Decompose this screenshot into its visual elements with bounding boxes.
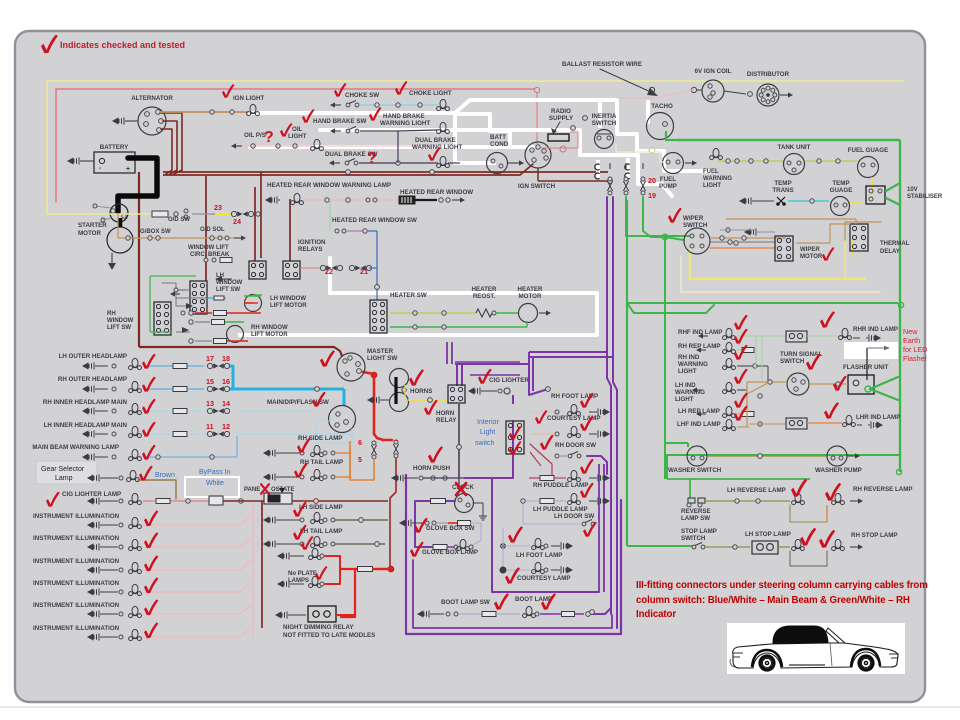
svg-text:WINDOW: WINDOW [107,318,134,324]
svg-text:SWITCH: SWITCH [681,535,706,542]
svg-text:LIGHT: LIGHT [703,183,721,189]
svg-text:INSTRUMENT ILLUMINATION: INSTRUMENT ILLUMINATION [33,558,120,565]
svg-text:LAMPS: LAMPS [288,578,309,584]
svg-text:CIG LIGHTER: CIG LIGHTER [489,377,529,384]
svg-text:RH IND: RH IND [678,354,700,361]
svg-text:16: 16 [222,377,230,386]
svg-text:LHF IND LAMP: LHF IND LAMP [677,421,721,428]
svg-text:LH SIDE LAMP: LH SIDE LAMP [299,504,343,511]
svg-text:INERTIA: INERTIA [592,113,617,120]
svg-text:OSTATE: OSTATE [271,487,294,493]
svg-text:23: 23 [214,203,222,212]
svg-text:+: + [126,166,130,173]
svg-text:HEATER: HEATER [518,286,544,293]
svg-text:RH REP LAMP: RH REP LAMP [678,343,721,350]
svg-text:LAMP SW: LAMP SW [681,515,710,522]
svg-text:LH REVERSE LAMP: LH REVERSE LAMP [727,487,786,494]
svg-text:BATT: BATT [490,134,506,141]
svg-text:LH INNER HEADLAMP MAIN: LH INNER HEADLAMP MAIN [44,422,128,429]
svg-text:RELAYS: RELAYS [298,246,323,253]
svg-text:STABILISER: STABILISER [907,194,943,200]
svg-text:MOTOR: MOTOR [519,293,542,300]
svg-text:SWITCH: SWITCH [780,358,805,365]
svg-text:HEATED REAR WINDOW SW: HEATED REAR WINDOW SW [332,217,417,224]
svg-text:Indicator: Indicator [636,609,676,620]
svg-text:STARTER: STARTER [78,222,107,229]
svg-text:?: ? [367,150,377,167]
svg-text:LHR IND LAMP: LHR IND LAMP [856,414,900,421]
svg-text:Earth: Earth [903,336,920,345]
svg-text:HEATED REAR WINDOW WARNING LAM: HEATED REAR WINDOW WARNING LAMP [267,182,391,189]
svg-text:FUEL GUAGE: FUEL GUAGE [848,147,888,154]
svg-text:12: 12 [222,422,230,431]
svg-text:White: White [206,480,224,487]
svg-text:LH DOOR SW: LH DOOR SW [554,513,594,520]
svg-text:LH OUTER HEADLAMP: LH OUTER HEADLAMP [59,353,127,360]
svg-text:11: 11 [206,422,214,431]
svg-text:FUEL: FUEL [703,169,719,175]
svg-text:STOP LAMP: STOP LAMP [681,528,717,535]
svg-text:HORN: HORN [436,410,455,417]
svg-text:REOST.: REOST. [473,293,496,300]
svg-text:HEATER SW: HEATER SW [390,292,427,299]
svg-text:10V: 10V [907,187,918,193]
svg-text:RH REVERSE LAMP: RH REVERSE LAMP [853,486,912,493]
svg-text:Light: Light [480,429,495,436]
svg-text:TURN SIGNAL: TURN SIGNAL [780,351,822,358]
svg-text:SWITCH: SWITCH [592,120,617,127]
svg-text:LH FOOT LAMP: LH FOOT LAMP [516,552,562,559]
svg-text:INSTRUMENT ILLUMINATION: INSTRUMENT ILLUMINATION [33,513,120,520]
svg-text:LIGHT: LIGHT [288,133,307,140]
svg-text:PUMP: PUMP [659,183,677,190]
svg-text:LIGHT: LIGHT [678,368,697,375]
svg-text:column switch: Blue/White – Ma: column switch: Blue/White – Main Beam & … [636,595,910,606]
svg-text:19: 19 [648,191,656,200]
svg-text:21: 21 [360,267,368,276]
svg-text:CIRC. BREAK: CIRC. BREAK [190,252,230,258]
svg-text:HORNS: HORNS [410,388,432,395]
svg-text:24: 24 [233,217,241,226]
svg-text:LH WINDOW: LH WINDOW [270,296,306,302]
svg-text:RH OUTER HEADLAMP: RH OUTER HEADLAMP [58,376,127,383]
svg-text:ByPass In: ByPass In [199,469,231,476]
svg-text:TEMP: TEMP [832,180,849,187]
svg-text:FUEL: FUEL [660,176,676,183]
svg-text:WASHER PUMP: WASHER PUMP [815,467,862,474]
svg-text:LIFT MOTOR: LIFT MOTOR [251,332,288,338]
svg-text:CHOKE SW: CHOKE SW [345,92,379,99]
svg-text:LIFT SW: LIFT SW [107,325,131,331]
svg-text:HORN PUSH: HORN PUSH [413,465,451,472]
svg-text:22: 22 [325,267,333,276]
svg-text:WINDOW: WINDOW [216,280,243,286]
svg-text:SUPPLY: SUPPLY [549,115,574,122]
svg-text:COND: COND [490,141,509,148]
svg-text:LH TAIL LAMP: LH TAIL LAMP [300,528,342,535]
svg-text:FLASHER UNIT: FLASHER UNIT [843,364,889,371]
svg-text:17: 17 [206,354,214,363]
svg-text:WARNING: WARNING [675,389,705,396]
svg-text:LIFT SW: LIFT SW [216,287,240,293]
svg-text:DELAY: DELAY [880,249,900,255]
svg-text:RH PUDDLE LAMP: RH PUDDLE LAMP [533,482,588,489]
svg-text:LH IND: LH IND [675,382,696,389]
svg-text:for LED: for LED [903,345,927,354]
svg-text:IGN SWITCH: IGN SWITCH [518,183,556,190]
svg-text:TANK UNIT: TANK UNIT [778,144,811,151]
svg-text:WASHER SWITCH: WASHER SWITCH [668,467,722,474]
svg-text:PANE: PANE [244,487,260,493]
svg-text:LH REP LAMP: LH REP LAMP [678,408,720,415]
svg-text:13: 13 [206,399,214,408]
svg-text:RHR IND LAMP: RHR IND LAMP [853,326,898,333]
svg-text:BOOT LAMP SW: BOOT LAMP SW [441,599,490,606]
svg-text:Gear Selector: Gear Selector [41,466,85,473]
svg-text:LIFT MOTOR: LIFT MOTOR [270,303,307,309]
svg-text:BOOT LAMP: BOOT LAMP [515,596,552,603]
svg-text:CIG LIGHTER LAMP: CIG LIGHTER LAMP [62,491,121,498]
svg-text:THERMAL: THERMAL [880,241,910,247]
svg-text:INSTRUMENT ILLUMINATION: INSTRUMENT ILLUMINATION [33,625,120,632]
svg-text:GLOVE BOX LAMP: GLOVE BOX LAMP [422,549,478,556]
svg-text:MOTOR: MOTOR [78,230,101,237]
svg-text:RADIO: RADIO [551,108,571,115]
svg-text:RH DOOR SW: RH DOOR SW [555,442,596,449]
svg-text:MAIN BEAM WARNING LAMP: MAIN BEAM WARNING LAMP [32,444,119,451]
svg-text:6: 6 [358,438,362,447]
svg-text:MOTOR: MOTOR [800,254,823,260]
svg-text:TACHO: TACHO [651,103,673,110]
svg-text:RELAY: RELAY [436,417,457,424]
svg-text:RHF IND LAMP: RHF IND LAMP [678,329,722,336]
svg-text:Brown: Brown [155,472,175,479]
svg-text:REVERSE: REVERSE [681,508,711,515]
svg-text:OIL: OIL [292,126,303,133]
svg-text:Interior: Interior [477,419,499,426]
svg-text:O/D SOL: O/D SOL [200,227,225,233]
svg-text:5: 5 [358,455,362,464]
svg-text:BATTERY: BATTERY [100,144,129,151]
svg-text:18: 18 [222,354,230,363]
svg-text:NOT FITTED TO LATE MODLES: NOT FITTED TO LATE MODLES [283,632,375,639]
svg-text:GLOVE BOX SW: GLOVE BOX SW [426,525,475,532]
svg-text:DISTRIBUTOR: DISTRIBUTOR [747,71,790,78]
svg-text:20: 20 [648,176,656,185]
svg-text:INSTRUMENT ILLUMINATION: INSTRUMENT ILLUMINATION [33,535,120,542]
svg-text:RH: RH [107,311,116,317]
svg-text:IGN LIGHT: IGN LIGHT [233,95,264,102]
svg-text:GUAGE: GUAGE [830,187,853,194]
svg-text:14: 14 [222,399,230,408]
svg-text:IGNITION: IGNITION [298,239,326,246]
svg-text:COURTESY LAMP: COURTESY LAMP [517,575,571,582]
svg-text:RH INNER HEADLAMP MAIN: RH INNER HEADLAMP MAIN [43,399,128,406]
svg-text:WARNING: WARNING [703,176,732,182]
svg-text:NIGHT DIMMING RELAY: NIGHT DIMMING RELAY [283,624,354,631]
svg-text:SWITCH: SWITCH [683,222,708,229]
svg-text:DUAL BRAKE: DUAL BRAKE [415,137,456,144]
svg-text:HEATED REAR WINDOW: HEATED REAR WINDOW [400,189,473,196]
svg-text:LIGHT: LIGHT [675,396,694,403]
svg-text:6V IGN COIL: 6V IGN COIL [695,68,732,75]
svg-text:MASTER: MASTER [367,348,394,355]
svg-text:Lamp: Lamp [55,475,73,482]
svg-text:III-fitting connectors under s: III-fitting connectors under steering co… [636,580,928,591]
svg-text:No PLATE: No PLATE [288,571,317,577]
svg-text:INSTRUMENT ILLUMINATION: INSTRUMENT ILLUMINATION [33,580,120,587]
svg-text:CHOKE LIGHT: CHOKE LIGHT [409,90,452,97]
svg-text:O/D SW: O/D SW [168,217,190,223]
svg-text:WINDOW LIFT: WINDOW LIFT [188,245,229,251]
svg-text:INSTRUMENT ILLUMINATION: INSTRUMENT ILLUMINATION [33,602,120,609]
svg-text:TEMP: TEMP [774,180,791,187]
svg-text:Flasher: Flasher [903,354,928,363]
svg-text:RH STOP LAMP: RH STOP LAMP [851,532,898,539]
svg-text:HEATER: HEATER [472,286,498,293]
svg-text:WIPER: WIPER [683,215,704,222]
svg-text:LIGHT SW: LIGHT SW [367,355,397,362]
svg-text:LH: LH [216,273,224,279]
svg-text:TRANS: TRANS [772,187,793,194]
svg-text:WIPER: WIPER [800,247,820,253]
svg-text:WARNING: WARNING [678,361,708,368]
svg-text:LH STOP LAMP: LH STOP LAMP [745,531,791,538]
svg-text:LH PUDDLE LAMP: LH PUDDLE LAMP [533,506,588,513]
svg-text:RH WINDOW: RH WINDOW [251,325,288,331]
svg-text:HAND BRAKE SW: HAND BRAKE SW [313,118,366,125]
svg-text:Indicates checked and tested: Indicates checked and tested [60,40,185,50]
svg-text:BALLAST RESISTOR WIRE: BALLAST RESISTOR WIRE [562,61,642,68]
svg-text:switch: switch [475,440,495,447]
svg-text:?: ? [264,129,274,146]
svg-text:OIL P/S: OIL P/S [244,132,266,139]
svg-text:ALTERNATOR: ALTERNATOR [131,95,173,102]
svg-text:15: 15 [206,377,214,386]
svg-text:HAND BRAKE: HAND BRAKE [383,113,425,120]
svg-text:New: New [903,327,918,336]
svg-text:RH SIDE LAMP: RH SIDE LAMP [298,435,342,442]
svg-text:G/BOX SW: G/BOX SW [140,229,171,235]
svg-text:WARNING LIGHT: WARNING LIGHT [380,120,430,127]
